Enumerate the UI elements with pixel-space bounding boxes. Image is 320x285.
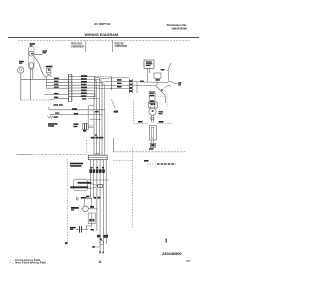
svg-text:-02 WW*CB: -02 WW*CB	[93, 22, 111, 26]
svg-text:• → Non-Field-wiring Path: • → Non-Field-wiring Path	[10, 260, 47, 264]
svg-text:COMPARTMENT: COMPARTMENT	[115, 45, 128, 48]
svg-text:11: 11	[98, 260, 102, 264]
svg-text:5995435095: 5995435095	[171, 27, 187, 31]
svg-text:WIRING DIAGRAM: WIRING DIAGRAM	[85, 33, 119, 37]
svg-text:240446500: 240446500	[162, 251, 182, 256]
svg-text:1302: 1302	[186, 260, 192, 262]
svg-text:COMPARTMENT: COMPARTMENT	[71, 45, 84, 48]
